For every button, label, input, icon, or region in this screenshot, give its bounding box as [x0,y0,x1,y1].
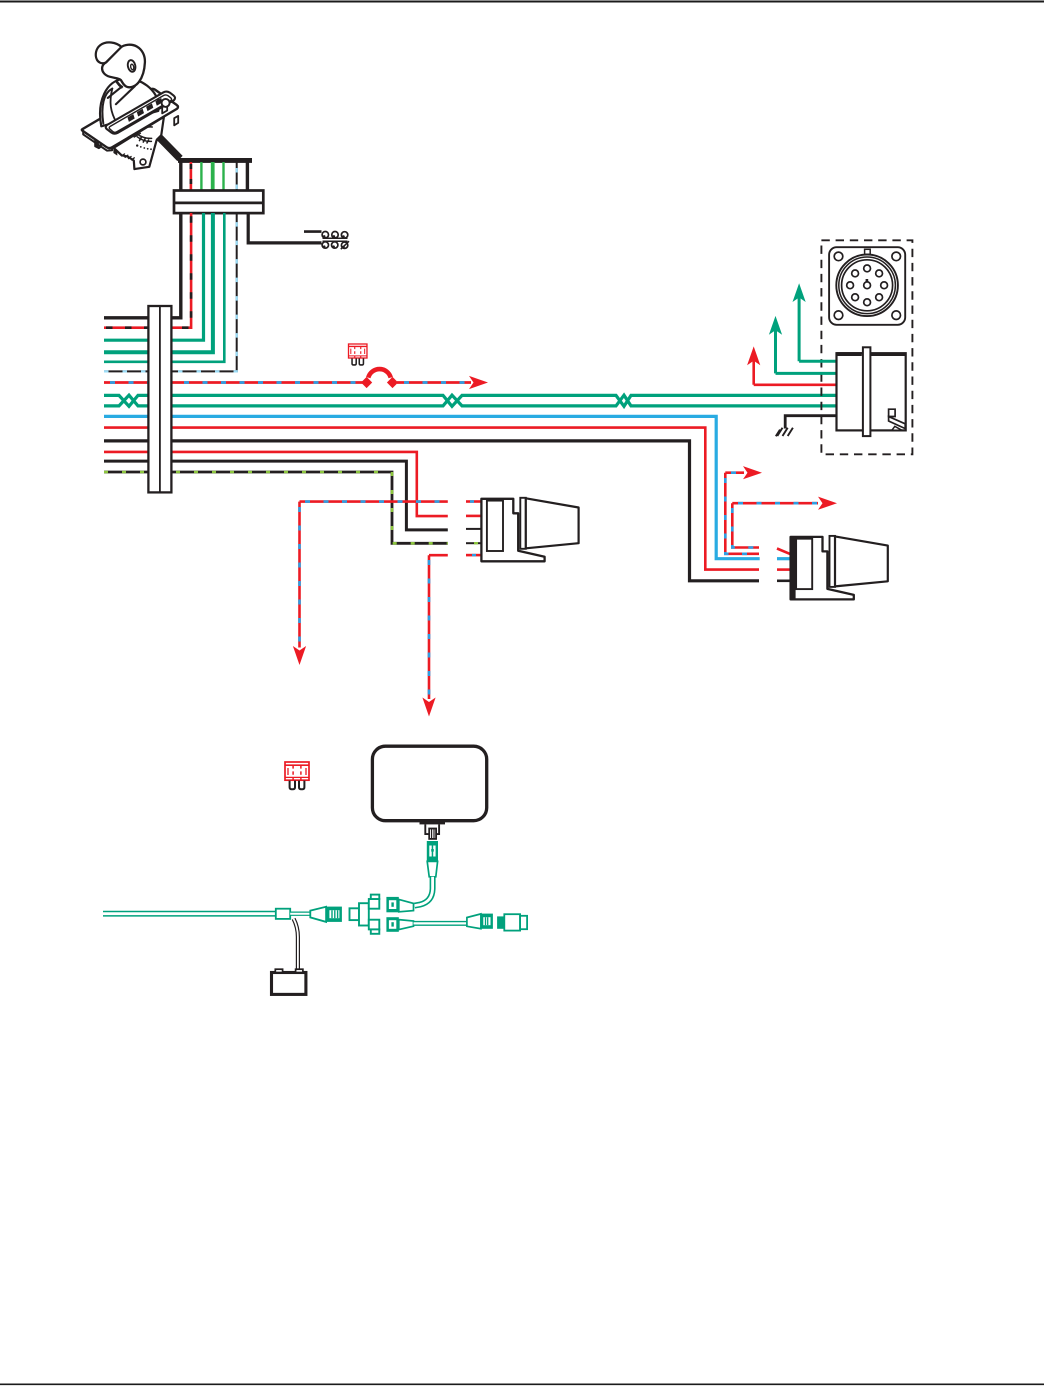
engine connector A [481,498,578,562]
engine connector B [791,536,888,600]
tee adapter [350,895,380,934]
wire teal twisted pair upper [104,395,837,406]
arrow short to dash panel [725,471,744,474]
wire light blue to engine connector B [104,416,760,558]
bracket screw hole [140,159,146,165]
grip button [127,59,137,72]
slot teeth [128,98,163,122]
wire black w/ pale blue dash [236,162,238,191]
slot plate inner [109,95,171,132]
helm harness side connector [837,347,906,436]
plate side tab upper [162,104,167,114]
detent arcs [136,133,151,141]
wire teal w/ up arrow 1 [799,290,836,361]
bracket inner mechanism lines [130,128,140,137]
main harness long wires [104,369,837,716]
harness bundle sleeve bar [148,306,171,492]
instrument harness main cable [103,911,276,917]
control mounting bracket [114,117,164,169]
connector B left edge shade [791,537,796,600]
bracket serration [122,154,135,160]
lever grip head [102,45,145,88]
wire red w/ blue dash connector B feeds with arrows [725,466,837,554]
wire black w/ pale blue dash bend [104,213,237,371]
grip palm hat [96,42,122,63]
left mounting foot [95,139,101,148]
fuse link arc [368,369,390,378]
wire red w/ blue dash to fuse link [104,381,363,384]
arrow long to accessories [732,502,818,505]
page bottom rule [0,1383,1044,1385]
wire red w/ blue dash connector A pin1 and accessory drop [300,500,448,503]
wire green 3 [222,162,224,191]
bracket black wedge [113,148,117,156]
stub into connector B [777,549,791,555]
wire red to engine connector B [104,428,759,570]
helm harness dashed outline box [821,240,912,454]
cable thin segment [290,912,311,916]
wire black right [246,162,249,191]
harness wires: bar to connector block [181,162,248,191]
base plate front edge [83,131,112,151]
wire red w/ blue dash connector A pin5 and accessory drop right [429,554,448,557]
wire green 2 [211,162,215,191]
wire teal w/ up arrow 2 [776,323,837,374]
helm harness side connector wires [747,283,836,436]
data connector face view [829,247,905,325]
wire teal twisted pair lower [104,395,837,406]
fuse 5A spare [285,762,309,789]
harness wires below block with left bends [104,213,322,371]
tee bottom plug [386,917,413,932]
tee top plug [386,897,413,912]
wire green 1 [200,162,202,191]
beak sliver [116,81,122,88]
page top rule [0,1,1044,3]
harness connector block [174,191,263,214]
connector pins [847,265,888,306]
wire teal 1 bend [104,213,204,340]
wire teal 3 bend [104,213,224,362]
ground symbol [776,428,793,436]
wire red [190,162,193,191]
plate side tab right [174,116,178,125]
bottom cable plug [467,914,493,929]
terminal strip [322,232,349,250]
wire black w/ green dash to engine connector A [104,472,448,543]
battery drop wire [294,919,298,970]
dome track arcs [102,89,112,124]
wire teal 2 bend [104,213,213,352]
throttle dome body [100,79,159,127]
control cable to harness [159,137,181,159]
fuse link node diamond left [361,377,372,388]
lever shaft [108,86,135,104]
arrow to key switch [469,376,488,389]
drop wire B2 vertical [732,503,759,547]
wire red / black dash bend [104,213,191,328]
fuse link node diamond right [387,377,398,388]
cable ferrule [276,909,290,919]
wire red w/ up arrow [754,353,837,385]
harness top thick bar [178,158,252,163]
tee bottom cable [414,921,468,926]
wire black to engine connector A [104,461,448,530]
drop wire B1 vertical [725,473,759,554]
harness plug into tee [310,907,342,922]
module pigtail cable [415,877,433,906]
fuse 15A inline [349,344,367,365]
control slot plate [106,92,175,134]
wire black to engine connector B [104,441,759,581]
wire red to engine connector A [104,452,448,516]
wire black left bend [104,213,181,318]
wire black left [179,162,182,191]
mating connector white [497,914,527,930]
battery [272,969,306,994]
control base plate [82,89,178,148]
wire black to ground [785,416,836,429]
remote control lever assembly [82,42,178,169]
accessory drop wire vertical left [298,502,301,648]
short black wire to terminal top row [304,230,322,233]
slot end circle [162,99,170,107]
module connector stub [420,821,446,839]
control module [372,746,486,821]
accessory drop wire vertical right [428,555,431,699]
wire black right to terminal strip [248,213,321,243]
module pigtail plug teal [427,841,438,877]
